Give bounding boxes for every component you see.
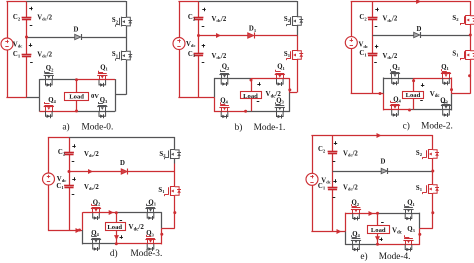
wire switch-leg lower (mode-3) <box>174 172 176 187</box>
svg-text:D: D <box>74 27 79 34</box>
svg-text:c): c) <box>403 121 410 132</box>
diode D (mode-4) <box>381 168 387 173</box>
capacitor C2 (mode-4) <box>328 151 338 153</box>
diode D (mode-3) <box>121 169 127 174</box>
wire bridge top rail right (mode-2) <box>414 78 452 80</box>
svg-text:Load: Load <box>69 93 84 100</box>
transistor Q2 (mode-3) <box>92 209 94 213</box>
wire source top segment (mode-4) <box>311 135 332 137</box>
current direction arrows (mode-2) <box>416 0 421 4</box>
svg-text:Load: Load <box>243 93 258 100</box>
load box (mode-0) <box>65 93 89 101</box>
wire switch-leg lower (mode-0) <box>126 37 128 51</box>
capacitor C2 (mode-1) <box>194 17 204 19</box>
load box (mode-4) <box>368 226 390 234</box>
polarity marks C2 (mode-0) <box>29 8 32 10</box>
svg-text:Mode-4.: Mode-4. <box>379 252 411 262</box>
wire bridge top rail right (mode-1) <box>251 78 290 80</box>
transistor Q2 (mode-4) <box>352 209 354 213</box>
wire source top segment (mode-1) <box>178 1 198 3</box>
svg-text:Mode-2.: Mode-2. <box>421 122 453 132</box>
svg-text:0V: 0V <box>91 93 99 100</box>
load polarity marks (mode-1) <box>257 84 260 86</box>
capacitor C2 (mode-2) <box>368 17 378 19</box>
junction dots (mode-4) <box>431 170 434 173</box>
polarity marks C1 (mode-1) <box>202 45 205 47</box>
svg-text:d): d) <box>110 248 118 259</box>
transistor Q4 (mode-1) <box>221 107 223 111</box>
wire bridge left rail (mode-0) <box>39 79 41 97</box>
transistor Q4 (mode-4) <box>352 240 354 244</box>
transistor Q1 (mode-0) <box>99 76 101 80</box>
wire bridge left rail (mode-3) <box>82 212 84 230</box>
wire caps to bridge (mode-4) <box>333 231 346 233</box>
polarity marks C2 (mode-2) <box>375 9 378 11</box>
wire caps to bridge (mode-2) <box>373 93 384 95</box>
wire bridge bottom rail left (mode-1) <box>214 111 246 113</box>
transistor S1 (mode-4) <box>428 184 433 186</box>
wire source bottom segment (mode-3) <box>48 230 69 232</box>
svg-text:Mode-1.: Mode-1. <box>254 123 286 133</box>
svg-text:Load: Load <box>107 224 122 231</box>
diode D (mode-2) <box>414 32 420 37</box>
wire bridge bottom rail left (mode-2) <box>384 109 410 111</box>
wire bridge bottom rail left (mode-3) <box>83 243 117 245</box>
wire switch-leg upper (mode-3) <box>174 137 176 150</box>
voltage source Vdc (mode-0) <box>7 1 9 38</box>
wire capacitor rail (mode-3) <box>69 137 71 152</box>
load polarity marks (mode-3) <box>120 220 123 222</box>
wire jog to bridge (mode-0) <box>115 94 126 96</box>
wire bridge top rail left (mode-0) <box>40 79 77 81</box>
load box (mode-1) <box>241 92 262 99</box>
wire switch-leg lower (mode-1) <box>297 36 299 51</box>
transistor S1 (mode-3) <box>170 186 175 188</box>
transistor Q3 (mode-4) <box>405 240 407 244</box>
wire source top segment (mode-2) <box>351 1 373 3</box>
wire bridge left rail (mode-2) <box>383 78 385 94</box>
wire capacitor rail (mode-0) <box>26 1 28 18</box>
wire bridge right rail (mode-0) <box>115 79 117 95</box>
wire load vertical (mode-0) <box>76 80 78 92</box>
transistor Q1 (mode-1) <box>276 75 278 79</box>
wire bridge top rail right (mode-4) <box>378 213 420 215</box>
wire bridge right rail (mode-2) <box>451 78 453 94</box>
polarity marks C2 (mode-1) <box>202 9 205 11</box>
current direction arrows (mode-3) <box>88 169 93 174</box>
wire bridge left rail (mode-4) <box>345 213 347 232</box>
transistor S2 (mode-1) <box>293 16 298 18</box>
wire middle bus (mode-1) <box>199 35 248 37</box>
transistor S1 (mode-2) <box>466 50 471 52</box>
polarity marks C2 (mode-4) <box>334 143 337 145</box>
wire capacitor rail (mode-1) <box>198 1 200 17</box>
wire bridge bottom rail right (mode-1) <box>246 111 290 113</box>
transistor Q2 (mode-2) <box>391 74 393 78</box>
svg-text:D: D <box>417 26 422 33</box>
wire bridge bottom rail right (mode-2) <box>410 109 452 111</box>
voltage source Vdc (mode-2) <box>351 1 353 37</box>
transistor S2 (mode-2) <box>466 15 471 17</box>
svg-text:e): e) <box>360 251 367 262</box>
wire bridge right rail (mode-4) <box>419 213 421 229</box>
wire middle bus (mode-3) <box>69 171 121 173</box>
wire jog to bridge (mode-2) <box>452 93 471 95</box>
transistor Q2 (mode-0) <box>45 76 47 80</box>
wire load vertical (mode-1) <box>251 79 253 92</box>
load polarity marks (mode-2) <box>421 85 424 87</box>
transistor Q2 (mode-1) <box>221 75 223 79</box>
capacitor C2 (mode-3) <box>64 152 74 154</box>
wire middle bus (mode-4) <box>333 171 382 173</box>
wire bridge bottom rail left (mode-4) <box>345 244 377 246</box>
transistor Q3 (mode-3) <box>147 240 149 244</box>
diode D (mode-1) <box>248 33 254 38</box>
transistor Q4 (mode-2) <box>391 106 393 110</box>
wire bridge right rail (mode-1) <box>289 78 291 92</box>
wire bridge bottom rail right (mode-3) <box>116 243 162 245</box>
wire load vertical (mode-3) <box>116 213 118 223</box>
wire switch-leg upper (mode-0) <box>126 1 128 17</box>
wire bridge bottom rail right (mode-0) <box>77 111 116 113</box>
transistor Q4 (mode-0) <box>45 107 47 111</box>
wire jog to bridge (mode-1) <box>290 92 297 94</box>
wire capacitor rail (mode-2) <box>372 1 374 17</box>
wire bridge top rail right (mode-3) <box>116 212 162 214</box>
wire load vertical (mode-2) <box>413 78 415 91</box>
wire source bottom segment (mode-2) <box>351 93 373 95</box>
junction dots (mode-2) <box>469 34 472 37</box>
transistor S2 (mode-4) <box>428 149 433 151</box>
load box (mode-2) <box>403 92 424 99</box>
capacitor C1 (mode-2) <box>368 53 378 55</box>
transistor S1 (mode-0) <box>122 51 127 53</box>
wire bridge right rail (mode-3) <box>161 212 163 228</box>
wire switch-leg upper (mode-2) <box>470 1 472 16</box>
capacitor C1 (mode-3) <box>64 185 74 187</box>
capacitor C1 (mode-4) <box>328 187 338 189</box>
transistor S2 (mode-3) <box>170 149 175 151</box>
wire top bus (mode-4) <box>333 135 433 137</box>
capacitor C1 (mode-0) <box>22 54 32 56</box>
wire switch-leg lower (mode-2) <box>470 35 472 51</box>
wire switch-leg upper (mode-1) <box>297 1 299 17</box>
svg-text:Mode-0.: Mode-0. <box>82 122 114 132</box>
wire source top segment (mode-3) <box>48 137 69 139</box>
svg-text:b): b) <box>235 122 243 133</box>
diode D (mode-0) <box>75 34 81 39</box>
wire bridge bottom rail right (mode-4) <box>378 244 420 246</box>
wire source bottom segment (mode-4) <box>311 231 332 233</box>
voltage source Vdc (mode-1) <box>179 1 181 38</box>
wire source bottom segment (mode-1) <box>178 97 198 99</box>
wire bridge top rail left (mode-1) <box>214 78 251 80</box>
wire top bus (mode-2) <box>373 1 471 3</box>
transistor Q4 (mode-3) <box>92 240 94 244</box>
transistor Q1 (mode-2) <box>442 74 444 78</box>
wire bridge top rail left (mode-4) <box>345 213 377 215</box>
voltage source Vdc (mode-4) <box>312 135 314 173</box>
wire source top segment (mode-0) <box>6 1 26 3</box>
voltage source Vdc (mode-3) <box>48 137 50 173</box>
wire middle bus (mode-0) <box>27 37 75 39</box>
wire source bottom segment (mode-0) <box>6 97 26 99</box>
polarity marks C1 (mode-3) <box>72 179 75 181</box>
wire switch-leg upper (mode-4) <box>432 135 434 150</box>
capacitor C1 (mode-1) <box>194 53 204 55</box>
load box (mode-3) <box>106 223 126 231</box>
junction dots (mode-1) <box>197 34 200 37</box>
transistor Q3 (mode-0) <box>99 107 101 111</box>
wire bridge top rail right (mode-0) <box>77 79 116 81</box>
svg-text:D: D <box>120 160 125 167</box>
wire top bus (mode-3) <box>69 137 175 139</box>
wire jog to bridge (mode-4) <box>420 228 433 230</box>
wire jog to bridge (mode-3) <box>162 228 175 230</box>
current direction arrows (mode-1) <box>216 33 221 38</box>
wire bridge top rail left (mode-2) <box>384 78 414 80</box>
svg-text:Mode-3.: Mode-3. <box>131 249 163 259</box>
junction dots (mode-0) <box>25 36 28 39</box>
wire top bus (mode-0) <box>27 1 127 3</box>
wire load vertical (mode-4) <box>377 213 379 225</box>
load polarity marks (mode-4) <box>381 222 384 224</box>
capacitor C2 (mode-0) <box>22 17 32 19</box>
wire bridge left rail (mode-1) <box>214 78 216 97</box>
polarity marks C2 (mode-3) <box>72 146 75 148</box>
polarity marks C1 (mode-2) <box>375 46 378 48</box>
svg-text:D: D <box>381 158 386 165</box>
transistor S1 (mode-1) <box>293 50 298 52</box>
polarity marks C1 (mode-4) <box>333 181 336 183</box>
wire caps to bridge (mode-0) <box>27 97 40 99</box>
wire caps to bridge (mode-3) <box>69 230 83 232</box>
transistor Q1 (mode-3) <box>147 209 149 213</box>
wire capacitor rail (mode-4) <box>332 135 334 151</box>
transistor S2 (mode-0) <box>122 17 127 19</box>
wire top bus (mode-1) <box>199 1 298 3</box>
wire bridge top rail left (mode-3) <box>83 212 117 214</box>
current direction arrows (mode-4) <box>377 133 382 138</box>
transistor Q1 (mode-4) <box>405 209 407 213</box>
wire switch-leg lower (mode-4) <box>432 171 434 185</box>
transistor Q3 (mode-2) <box>442 106 444 110</box>
svg-text:a): a) <box>62 121 69 132</box>
wire middle bus (mode-2) <box>373 35 414 37</box>
svg-text:Load: Load <box>371 227 386 234</box>
wire bridge bottom rail left (mode-0) <box>40 111 77 113</box>
svg-text:Load: Load <box>406 92 421 99</box>
wire caps to bridge (mode-1) <box>199 97 215 99</box>
transistor Q3 (mode-1) <box>276 107 278 111</box>
junction dots (mode-3) <box>68 170 71 173</box>
polarity marks C1 (mode-0) <box>29 45 32 47</box>
